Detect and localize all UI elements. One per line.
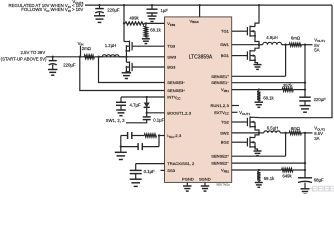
svg-text:6.5µH: 6.5µH <box>267 126 279 131</box>
svg-text:499k: 499k <box>129 16 139 21</box>
svg-text:68µF: 68µF <box>314 177 324 182</box>
svg-text:220µF: 220µF <box>63 62 76 67</box>
svg-text:PGND: PGND <box>182 176 194 181</box>
svg-text:SW3: SW3 <box>167 54 177 59</box>
svg-text:SGND: SGND <box>199 176 211 181</box>
svg-text:SENSE2+: SENSE2+ <box>211 154 229 159</box>
svg-text:TG3: TG3 <box>167 44 176 49</box>
svg-text:SENSE2−: SENSE2− <box>211 161 229 166</box>
svg-text:4.7µF: 4.7µF <box>130 103 141 108</box>
svg-text:8mΩ: 8mΩ <box>291 126 301 131</box>
svg-text:68.1k: 68.1k <box>150 28 161 33</box>
svg-text:TG1: TG1 <box>221 29 230 34</box>
svg-text:68.1k: 68.1k <box>264 176 275 181</box>
svg-text:TRACK/SS1, 2: TRACK/SS1, 2 <box>167 161 195 166</box>
svg-text:0.1µF: 0.1µF <box>153 117 164 122</box>
svg-text:220µF: 220µF <box>107 7 120 12</box>
svg-text:1.2µH: 1.2µH <box>105 43 117 48</box>
svg-text:0.1µF: 0.1µF <box>144 169 155 174</box>
svg-text:BG2: BG2 <box>221 140 230 145</box>
svg-text:SENSE1+: SENSE1+ <box>211 74 229 79</box>
svg-text:SW2: SW2 <box>220 130 230 135</box>
svg-text:3A: 3A <box>314 136 319 141</box>
svg-text:BG1: BG1 <box>221 53 230 58</box>
svg-text:4.9µH: 4.9µH <box>266 35 278 40</box>
svg-text:6mΩ: 6mΩ <box>291 36 301 41</box>
svg-text:SS3: SS3 <box>167 168 175 173</box>
svg-text:68.1k: 68.1k <box>263 96 274 101</box>
svg-text:LTC3859A: LTC3859A <box>189 55 213 61</box>
svg-text:SW1, 2, 3: SW1, 2, 3 <box>106 118 125 123</box>
svg-text:TG2: TG2 <box>221 120 230 125</box>
svg-text:220µF: 220µF <box>314 97 327 102</box>
svg-text:2mΩ: 2mΩ <box>82 46 92 51</box>
svg-text:(START-UP ABOVE 5V): (START-UP ABOVE 5V) <box>1 57 47 62</box>
svg-text:2.5V TO 38V: 2.5V TO 38V <box>21 50 46 55</box>
svg-text:SENSE1−: SENSE1− <box>211 80 229 85</box>
svg-text:RUN1, 2, 3: RUN1, 2, 3 <box>210 103 229 108</box>
svg-text:SENSE3−: SENSE3− <box>167 80 185 85</box>
svg-text:357k: 357k <box>283 83 293 88</box>
svg-text:5A: 5A <box>314 48 319 53</box>
svg-text:SENSE3+: SENSE3+ <box>167 88 185 93</box>
svg-text:3859 TA01a: 3859 TA01a <box>216 184 230 187</box>
svg-text:649k: 649k <box>282 173 292 178</box>
svg-text:SW1: SW1 <box>220 42 230 47</box>
svg-text:BG3: BG3 <box>167 65 176 70</box>
svg-text:1µF: 1µF <box>161 8 169 13</box>
svg-text:BOOST1, 2, 3: BOOST1, 2, 3 <box>167 110 192 115</box>
